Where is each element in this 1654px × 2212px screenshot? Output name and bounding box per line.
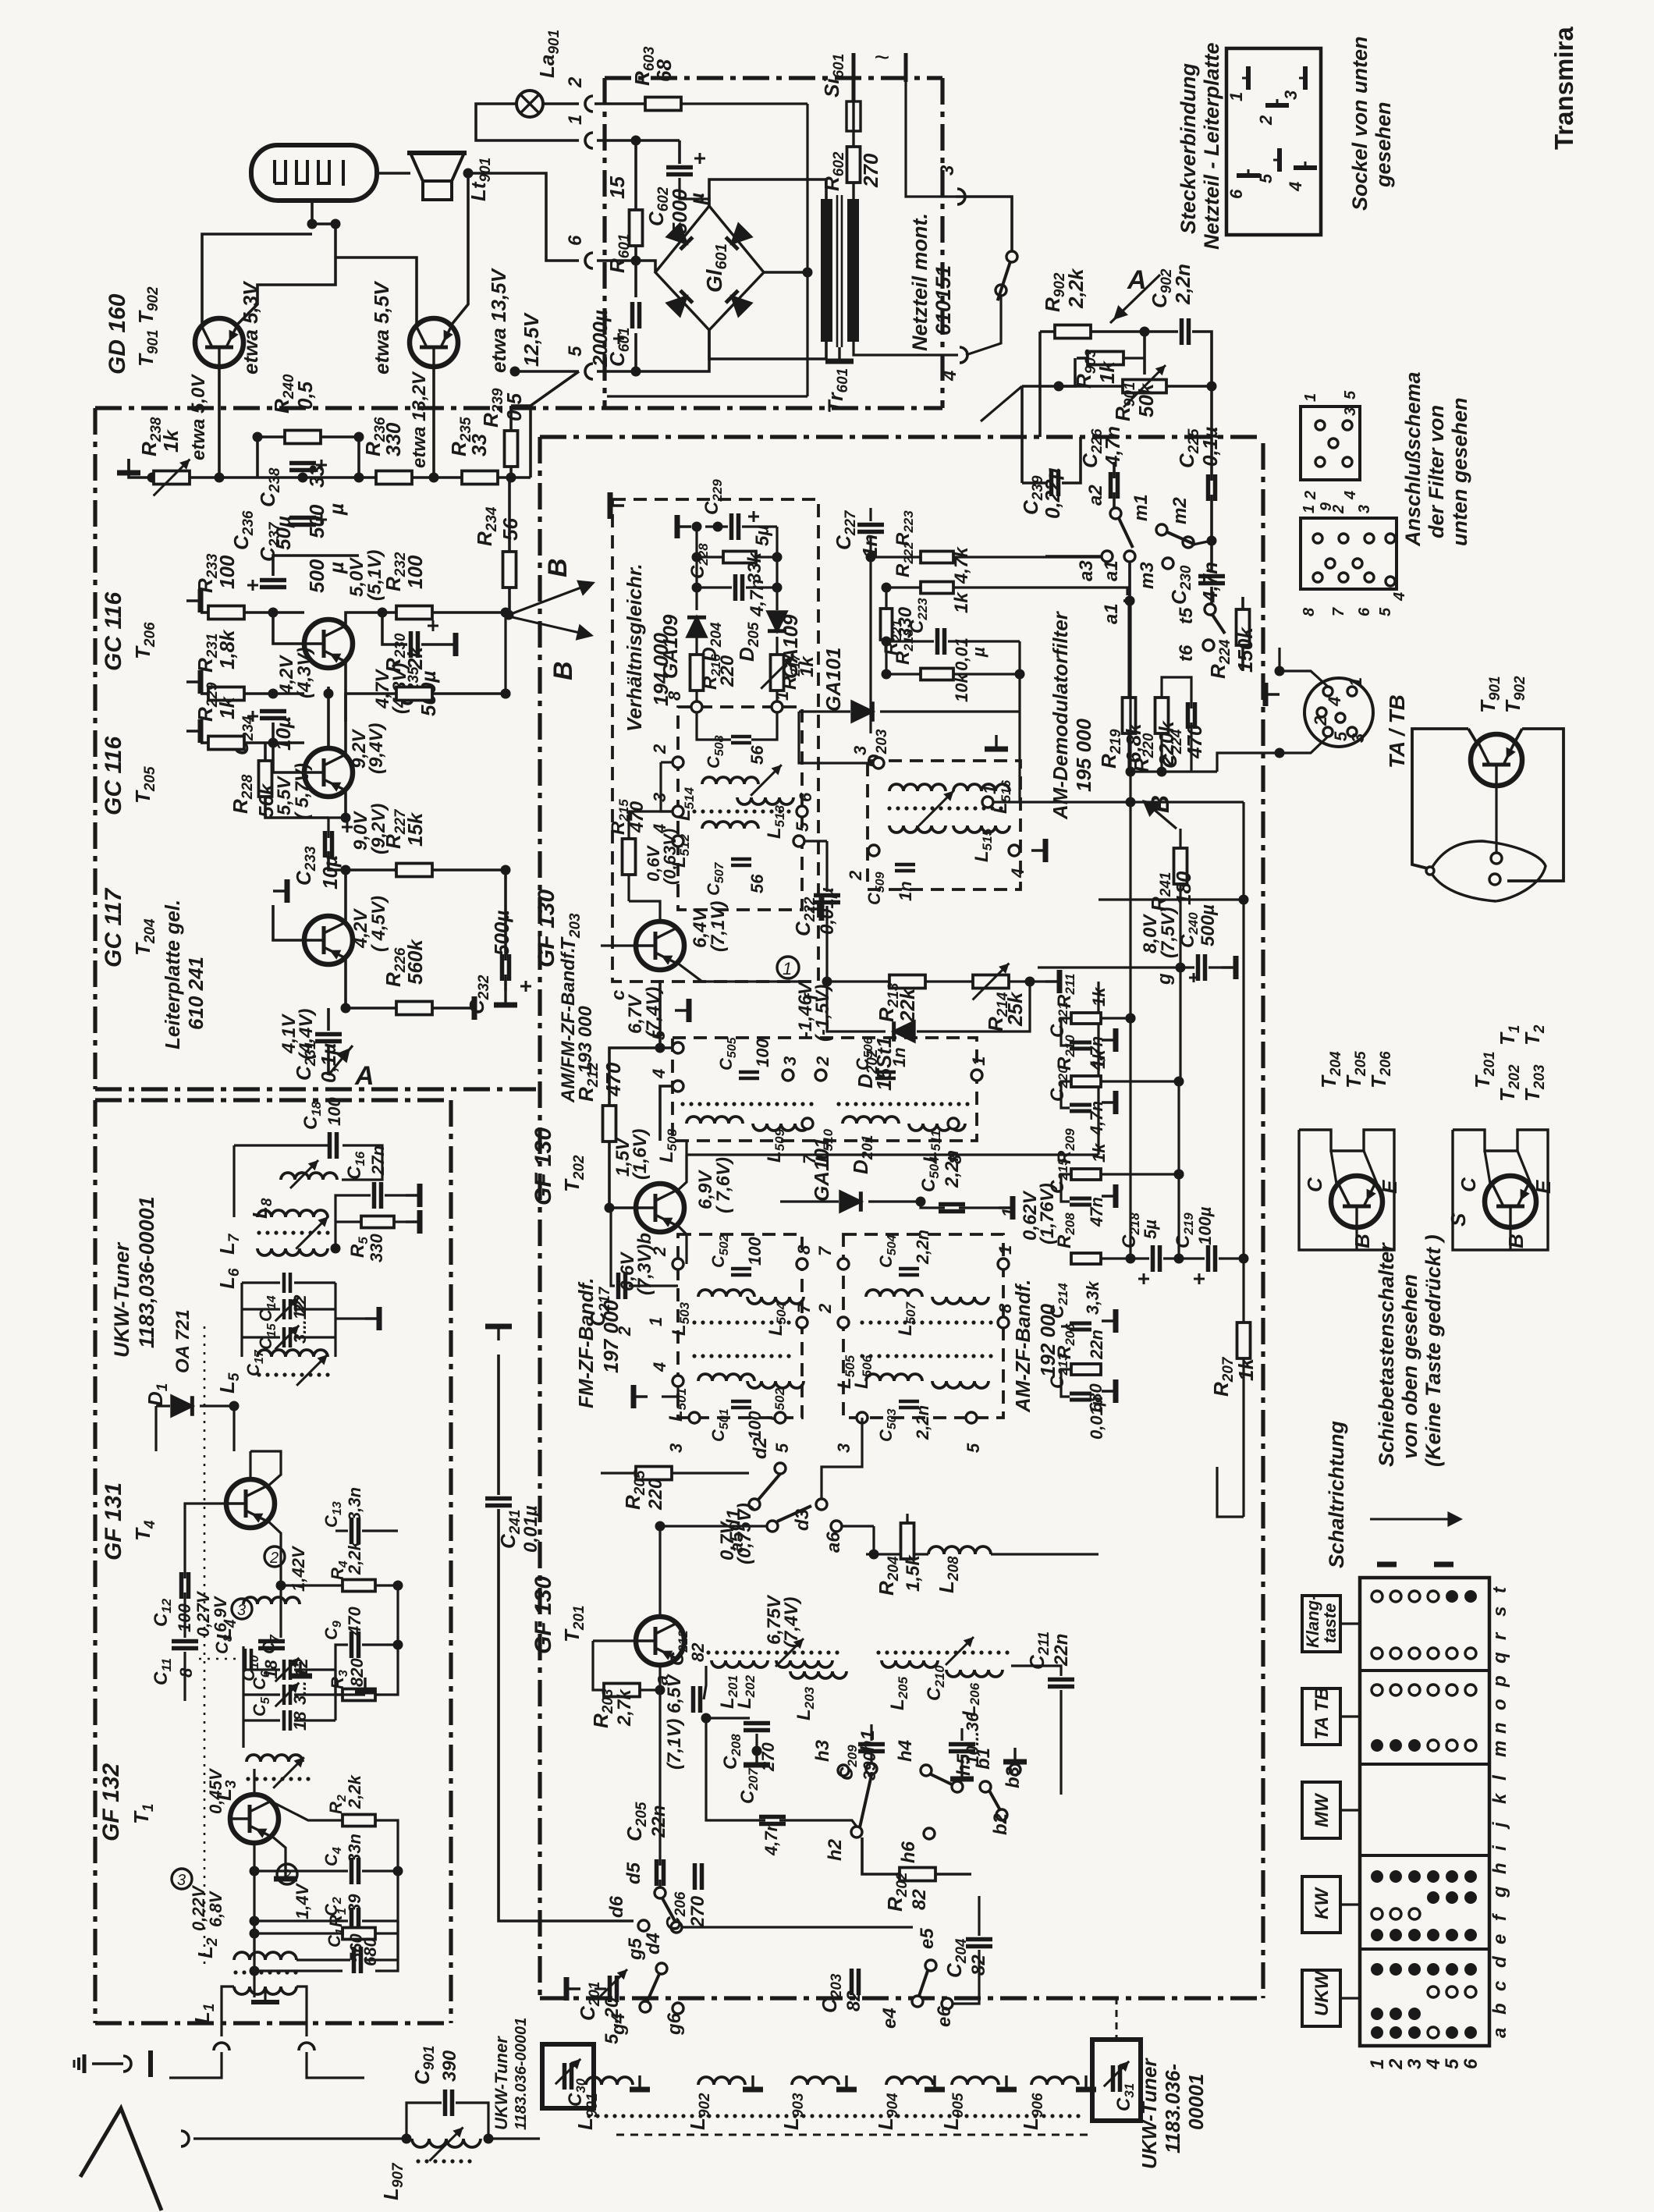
svg-text:b1: b1 (973, 1748, 994, 1770)
svg-text:2,2n: 2,2n (913, 1405, 932, 1440)
R228 wires (264, 743, 266, 761)
svg-text:4,7k: 4,7k (951, 546, 972, 584)
svg-text:6: 6 (1356, 607, 1373, 616)
transistor T202 (635, 1184, 684, 1232)
R204 wires (907, 1504, 908, 1523)
C240 drop (1179, 968, 1181, 1081)
FM antenna terminal (148, 2050, 153, 2077)
svg-text:(0,63V): (0,63V) (660, 829, 680, 885)
cap C504b 2,2n (939, 1202, 965, 1207)
svg-text:4: 4 (1286, 182, 1305, 192)
svg-text:1: 1 (980, 785, 999, 794)
mains lead right (904, 53, 908, 82)
svg-text:8: 8 (794, 1244, 814, 1255)
svg-text:A: A (354, 1061, 374, 1091)
svg-text:82: 82 (909, 1889, 930, 1910)
antenna wire to L907 (193, 2137, 406, 2139)
resistor R206 680 (1071, 1364, 1101, 1375)
wire R232 R230 to B (506, 612, 509, 615)
svg-text:Transmira: Transmira (1549, 27, 1578, 150)
rod stem wire (312, 201, 335, 242)
ground R229 (186, 719, 201, 743)
T901 package diamond (1430, 841, 1546, 901)
wire collector bus T205 (327, 687, 330, 747)
matrix grid (1360, 1578, 1489, 2046)
svg-text:1: 1 (1346, 677, 1365, 687)
svg-text:3: 3 (177, 1872, 186, 1889)
svg-text:GD 160: GD 160 (105, 293, 130, 375)
svg-text:e4: e4 (879, 2008, 900, 2029)
R213 wires (827, 980, 889, 982)
svg-text:12,5V: 12,5V (520, 311, 543, 367)
svg-text:1,4V: 1,4V (293, 1882, 312, 1919)
T206 emitter wire (328, 661, 346, 687)
arrow A top (1110, 275, 1160, 323)
wire a1 down (1123, 562, 1130, 601)
resistor R207 1k (1237, 1323, 1251, 1358)
resistor R216 220 (690, 655, 704, 691)
svg-text:3: 3 (1281, 91, 1301, 100)
C901 390 box (443, 2090, 448, 2116)
resistor R5 330 (361, 1216, 394, 1228)
svg-text:h6: h6 (898, 1841, 919, 1863)
C209 wires (854, 1718, 871, 1741)
svg-text:(5,1V): (5,1V) (364, 550, 385, 601)
button KW (1302, 1876, 1340, 1933)
svg-text:12: 12 (292, 1658, 311, 1678)
wire speaker left (377, 172, 410, 175)
svg-text:8: 8 (1301, 607, 1318, 616)
TA/TB wires (1280, 671, 1328, 687)
filter pinout box 9pin (1301, 518, 1397, 589)
svg-text:47n: 47n (1087, 1197, 1106, 1227)
cap C507 56 (731, 857, 751, 861)
AM antenna dipole (80, 2108, 161, 2210)
wire loop top right (1217, 1467, 1244, 1517)
svg-text:3: 3 (1342, 407, 1359, 416)
R229 wires (201, 741, 208, 744)
L1 center tap ground (264, 1987, 266, 2001)
cap C1 680 (352, 1947, 357, 1973)
coil L203 (790, 1671, 847, 1678)
svg-text:A: A (1127, 265, 1147, 295)
T204 base wire (273, 905, 304, 940)
wire C233 to R227 (328, 851, 396, 870)
C206 wires (698, 1666, 718, 1869)
svg-text:6: 6 (1461, 2058, 1482, 2069)
KW dots (1371, 1870, 1383, 1883)
coil L513 (737, 797, 793, 804)
wire C214 (1061, 1325, 1070, 1327)
svg-text:330: 330 (382, 422, 405, 456)
T902 emitter wire (451, 173, 468, 325)
pin 2 (673, 757, 683, 768)
pin 4 (673, 836, 683, 847)
cap C225 (1206, 474, 1211, 501)
svg-text:( 7,6V): ( 7,6V) (713, 1157, 734, 1213)
cap C231 (315, 1032, 342, 1037)
svg-text:610151: 610151 (932, 265, 955, 336)
svg-text:AM-ZF-Bandf.: AM-ZF-Bandf. (1011, 1280, 1035, 1413)
svg-text:4,7n: 4,7n (747, 579, 768, 617)
svg-text:(1,6V): (1,6V) (630, 1129, 651, 1180)
cap C508 56 (731, 735, 751, 739)
L row dotted core (587, 2114, 591, 2118)
svg-text:150k: 150k (1233, 627, 1257, 673)
coil L4 (243, 1597, 300, 1604)
button Klang (1302, 1596, 1340, 1652)
R232 wires (432, 611, 506, 614)
D202 wires (827, 982, 886, 1031)
svg-text:(0,75V): (0,75V) (734, 1503, 755, 1564)
vertical x1511 (1177, 1081, 1180, 1259)
svg-text:2: 2 (1256, 115, 1276, 126)
pin 8 node (691, 701, 702, 712)
svg-text:b: b (1489, 2003, 1510, 2015)
C212 wires (660, 1699, 690, 1700)
C229 ground (677, 515, 691, 538)
resistor R239 (505, 431, 518, 467)
ground above C241 (485, 1326, 512, 1340)
svg-text:UKW-Tuner: UKW-Tuner (110, 1242, 133, 1358)
coil L512 (702, 822, 758, 829)
svg-text:UKW-Tuner: UKW-Tuner (1138, 2058, 1161, 2169)
cap C509 1n (895, 863, 915, 867)
svg-text:1,8k: 1,8k (215, 629, 239, 669)
switch e5 e4 e6 (925, 1960, 936, 1971)
C235 wires (382, 612, 398, 644)
svg-text:1: 1 (1367, 2059, 1388, 2069)
svg-text:h: h (1489, 1862, 1510, 1874)
svg-text:a1: a1 (1101, 560, 1122, 581)
svg-text:500µ: 500µ (490, 911, 513, 956)
C222 wires (825, 841, 828, 892)
resistor 33k (723, 552, 756, 563)
d wires (749, 1470, 775, 1473)
T206 collector wire (346, 612, 406, 627)
svg-text:µ: µ (325, 503, 348, 516)
C31 connect (1116, 1998, 1117, 2040)
mains switch (956, 197, 1012, 251)
193000 pins (673, 1042, 683, 1053)
cap C218 5u (1151, 1245, 1155, 1272)
D203 wires (799, 710, 850, 712)
R211 wires (1102, 1017, 1130, 1019)
svg-text:Netzteil mont.: Netzteil mont. (908, 213, 932, 351)
R224 wires (1243, 577, 1263, 609)
T901 package outline (1412, 729, 1468, 868)
diode D202 (894, 1021, 914, 1042)
C208 wires (706, 1685, 750, 1718)
svg-text:(4,4V): (4,4V) (296, 1009, 317, 1060)
svg-text:GF 132: GF 132 (98, 1763, 124, 1841)
svg-text:0,1µ: 0,1µ (1198, 427, 1222, 467)
loudspeaker Lt901 (410, 153, 464, 181)
cap C502 100 (731, 1267, 751, 1271)
svg-text:2: 2 (650, 1246, 669, 1257)
cap C217 (616, 1273, 621, 1299)
resistor R213 22k (889, 975, 925, 989)
lamp La901 (516, 91, 543, 117)
R210 wires (1102, 1080, 1179, 1082)
svg-text:Sockel von unten: Sockel von unten (1348, 36, 1372, 211)
svg-text:1n: 1n (889, 1047, 909, 1067)
resistor R232 (396, 606, 432, 620)
svg-text:5µ: 5µ (752, 525, 773, 546)
button UKW (1302, 1970, 1340, 2026)
svg-text:470: 470 (1183, 724, 1206, 759)
svg-text:100: 100 (753, 1039, 772, 1067)
svg-text:s: s (1489, 1607, 1510, 1617)
transistor T204 (303, 916, 353, 964)
coil L904 (886, 2077, 933, 2085)
svg-text:OA 721: OA 721 (172, 1309, 193, 1373)
T204 collector wire (328, 870, 346, 923)
UKW dots (1371, 1963, 1383, 1976)
svg-text:82: 82 (843, 1990, 864, 2011)
cap C226 (1109, 472, 1113, 499)
resistor R233 (208, 606, 244, 620)
T901 base wire (218, 367, 221, 478)
wire A to junction (1143, 332, 1146, 375)
svg-text:E: E (1378, 1180, 1401, 1194)
svg-text:5: 5 (772, 1443, 792, 1453)
wire speaker right to rail (464, 173, 579, 261)
R903 wires (1075, 357, 1088, 359)
wire lamp left (476, 104, 579, 140)
svg-text:4: 4 (939, 371, 960, 382)
svg-text:195 000: 195 000 (1072, 718, 1095, 792)
coil L511 (909, 1124, 965, 1131)
cap C220 4,7n (1070, 1103, 1091, 1107)
pin 4 (1009, 845, 1020, 856)
svg-text:C: C (1303, 1177, 1326, 1192)
wire L202 to h3 (827, 1666, 839, 1770)
svg-text:t6: t6 (1176, 644, 1197, 662)
ground left of R238 (117, 459, 140, 473)
svg-text:n: n (1489, 1722, 1510, 1734)
volume pot tap wire (981, 386, 1022, 421)
pin2 wire (661, 761, 673, 763)
main board right border (1261, 443, 1265, 1998)
svg-text:1: 1 (646, 1317, 666, 1326)
TA/TB socket circle (1304, 678, 1373, 747)
svg-text:22k: 22k (896, 987, 919, 1023)
resistor R4 2,2k (343, 1580, 375, 1592)
svg-text:GC 116: GC 116 (101, 592, 126, 671)
row 1613 wires (1102, 1257, 1149, 1259)
svg-text:g6: g6 (664, 2012, 685, 2036)
bridge diode 2 (726, 224, 751, 249)
svg-text:2: 2 (1311, 715, 1330, 726)
arrow A bottom (328, 1046, 353, 1075)
cap C4 33n (350, 1858, 354, 1884)
cap C219 100u (1206, 1245, 1211, 1272)
ground top left of detector (610, 492, 624, 519)
detector filter box 194000 (678, 707, 802, 910)
cap C213 0,01u (1070, 1392, 1091, 1396)
wire pin6 to bridge (597, 261, 655, 272)
svg-text:560k: 560k (403, 939, 427, 985)
svg-text:2: 2 (1386, 2058, 1407, 2070)
svg-text:Schaltrichtung: Schaltrichtung (1325, 1420, 1348, 1568)
switch t5-t6 (1205, 604, 1216, 615)
svg-text:470: 470 (602, 1062, 625, 1097)
svg-text:a: a (1489, 2028, 1510, 2038)
L201 wires (704, 1666, 712, 1699)
svg-text:t5: t5 (1176, 607, 1197, 624)
resistor R241 180 (1174, 848, 1187, 884)
svg-text:h4: h4 (895, 1740, 916, 1762)
cap C16 27n (372, 1182, 377, 1209)
cap C227 1n (857, 523, 884, 527)
cap C503 2,2n (899, 1400, 919, 1404)
ratio core dots (692, 809, 696, 813)
wire d4 row (682, 1926, 913, 1928)
D201 wires (827, 1201, 839, 1202)
coil L901 (586, 2077, 633, 2085)
svg-text:68: 68 (652, 59, 676, 82)
svg-text:100: 100 (215, 555, 239, 589)
R226 wires (346, 1007, 396, 1010)
connector pin 2 (585, 96, 593, 112)
svg-text:Schiebetastenschalter: Schiebetastenschalter (1375, 1242, 1398, 1467)
cap C233 (323, 831, 328, 857)
svg-text:3,3n: 3,3n (345, 1487, 364, 1521)
L row verticals (585, 2060, 587, 2085)
L208 wires (866, 1553, 928, 1555)
transformer core lines (836, 195, 839, 347)
resistor R220 220k (1155, 698, 1169, 733)
coil L503 (698, 1290, 754, 1297)
pinout T201-203 transistor (1485, 1176, 1536, 1228)
svg-text:(7,1V) 6,5V: (7,1V) 6,5V (664, 1674, 685, 1770)
svg-text:g5: g5 (625, 1937, 646, 1961)
svg-text:2: 2 (846, 870, 865, 881)
svg-text:unten gesehen: unten gesehen (1448, 397, 1471, 546)
R215 wires (629, 811, 673, 839)
C205 wires (659, 1724, 661, 1866)
svg-text:1k: 1k (1089, 1142, 1109, 1163)
svg-text:etwa 5,5V: etwa 5,5V (370, 280, 393, 375)
svg-text:µ: µ (969, 647, 988, 658)
svg-text:00001: 00001 (1184, 2074, 1208, 2130)
B arrows to right (509, 584, 591, 615)
cap C223 0,01u (935, 628, 940, 655)
svg-text:B: B (548, 661, 578, 680)
svg-text:e: e (1489, 1934, 1510, 1944)
resistor R208 3,3k (1071, 1253, 1101, 1264)
R202 wires2 (862, 1837, 900, 1874)
cap C206 270 (693, 1863, 697, 1890)
svg-text:4: 4 (1423, 2059, 1444, 2070)
dots 197000 (692, 1320, 696, 1324)
svg-text:MW: MW (1311, 1792, 1333, 1827)
R240 wires (257, 435, 285, 438)
svg-text:Verhältnisgleichr.: Verhältnisgleichr. (623, 563, 646, 732)
svg-text:UKW: UKW (1311, 1969, 1333, 2016)
pinout case 2 (1453, 1130, 1548, 1250)
svg-text:2: 2 (565, 76, 586, 88)
svg-text:3: 3 (1348, 733, 1368, 743)
switch b1 b3 b2 (980, 1781, 991, 1792)
svg-text:GF 130: GF 130 (534, 889, 559, 968)
coil L516 pair (889, 784, 946, 791)
svg-text:der Filter von: der Filter von (1425, 405, 1448, 538)
cap C228 (733, 574, 738, 601)
svg-text:5: 5 (1377, 607, 1394, 616)
svg-text:1: 1 (999, 1208, 1018, 1217)
connector pin 1 (585, 133, 593, 148)
coil L507 pair (866, 1290, 922, 1297)
cap C222 (814, 893, 840, 898)
T1 wires (226, 1762, 247, 1795)
resistor R210 1k (1071, 1076, 1101, 1087)
circled 2 T1 (277, 1864, 297, 1884)
diode D204 GA109 (687, 617, 706, 637)
matrix marks top (1377, 1562, 1397, 1568)
wire R902 loop (1038, 332, 1042, 437)
TA/TB feed wires (1217, 753, 1280, 772)
T204 emitter down (328, 957, 346, 1008)
wire d3 up (822, 1418, 862, 1499)
cap C240 500u (1196, 954, 1201, 981)
T901 emitter wire (236, 242, 335, 325)
switch d1 d3 (749, 1499, 760, 1510)
svg-text:6,8V: 6,8V (206, 1890, 225, 1927)
transistor T203 (635, 921, 684, 970)
cap C7 trimmer (282, 1660, 286, 1680)
C508 wires (697, 712, 731, 740)
pot R214 25k (973, 975, 1009, 989)
svg-text:22n: 22n (1051, 1634, 1072, 1667)
resistor R235 (462, 471, 498, 485)
switch g5 g4 g6 (656, 1963, 667, 1974)
resistor R902 (1055, 325, 1091, 339)
circled 1 (777, 957, 799, 978)
svg-text:2,2n: 2,2n (1171, 264, 1194, 305)
svg-text:B: B (1146, 795, 1174, 813)
cap C9 470 (350, 1631, 354, 1658)
svg-text:3: 3 (937, 165, 958, 176)
resistor R602 (847, 147, 861, 183)
svg-text:220: 220 (717, 655, 738, 687)
R206 wires (1102, 1369, 1130, 1370)
coil L903 (792, 2077, 839, 2085)
variable resistor R238 (154, 471, 190, 485)
svg-text:a6: a6 (823, 1532, 844, 1553)
coil L907 (412, 2139, 481, 2147)
svg-text:GC 116: GC 116 (101, 737, 126, 815)
power wires left (634, 140, 637, 210)
svg-text:82: 82 (688, 1642, 708, 1662)
TA dots (1372, 1685, 1382, 1695)
R203 wires (593, 1641, 604, 1690)
tuning caps box (282, 1273, 286, 1293)
Steckverbindung pins (1246, 66, 1251, 90)
R222 wires (886, 586, 921, 588)
svg-text:KW: KW (1311, 1887, 1333, 1919)
pinout case 1 (1299, 1130, 1394, 1250)
main board bottom border (540, 1996, 1263, 2000)
svg-text:e5: e5 (917, 1928, 938, 1949)
switch h6 (924, 1828, 935, 1839)
svg-text:1k: 1k (159, 429, 183, 453)
svg-text:gesehen: gesehen (1372, 101, 1395, 188)
R205 wires (601, 1472, 636, 1474)
svg-text:100: 100 (403, 555, 427, 589)
svg-text:3: 3 (834, 1443, 854, 1453)
